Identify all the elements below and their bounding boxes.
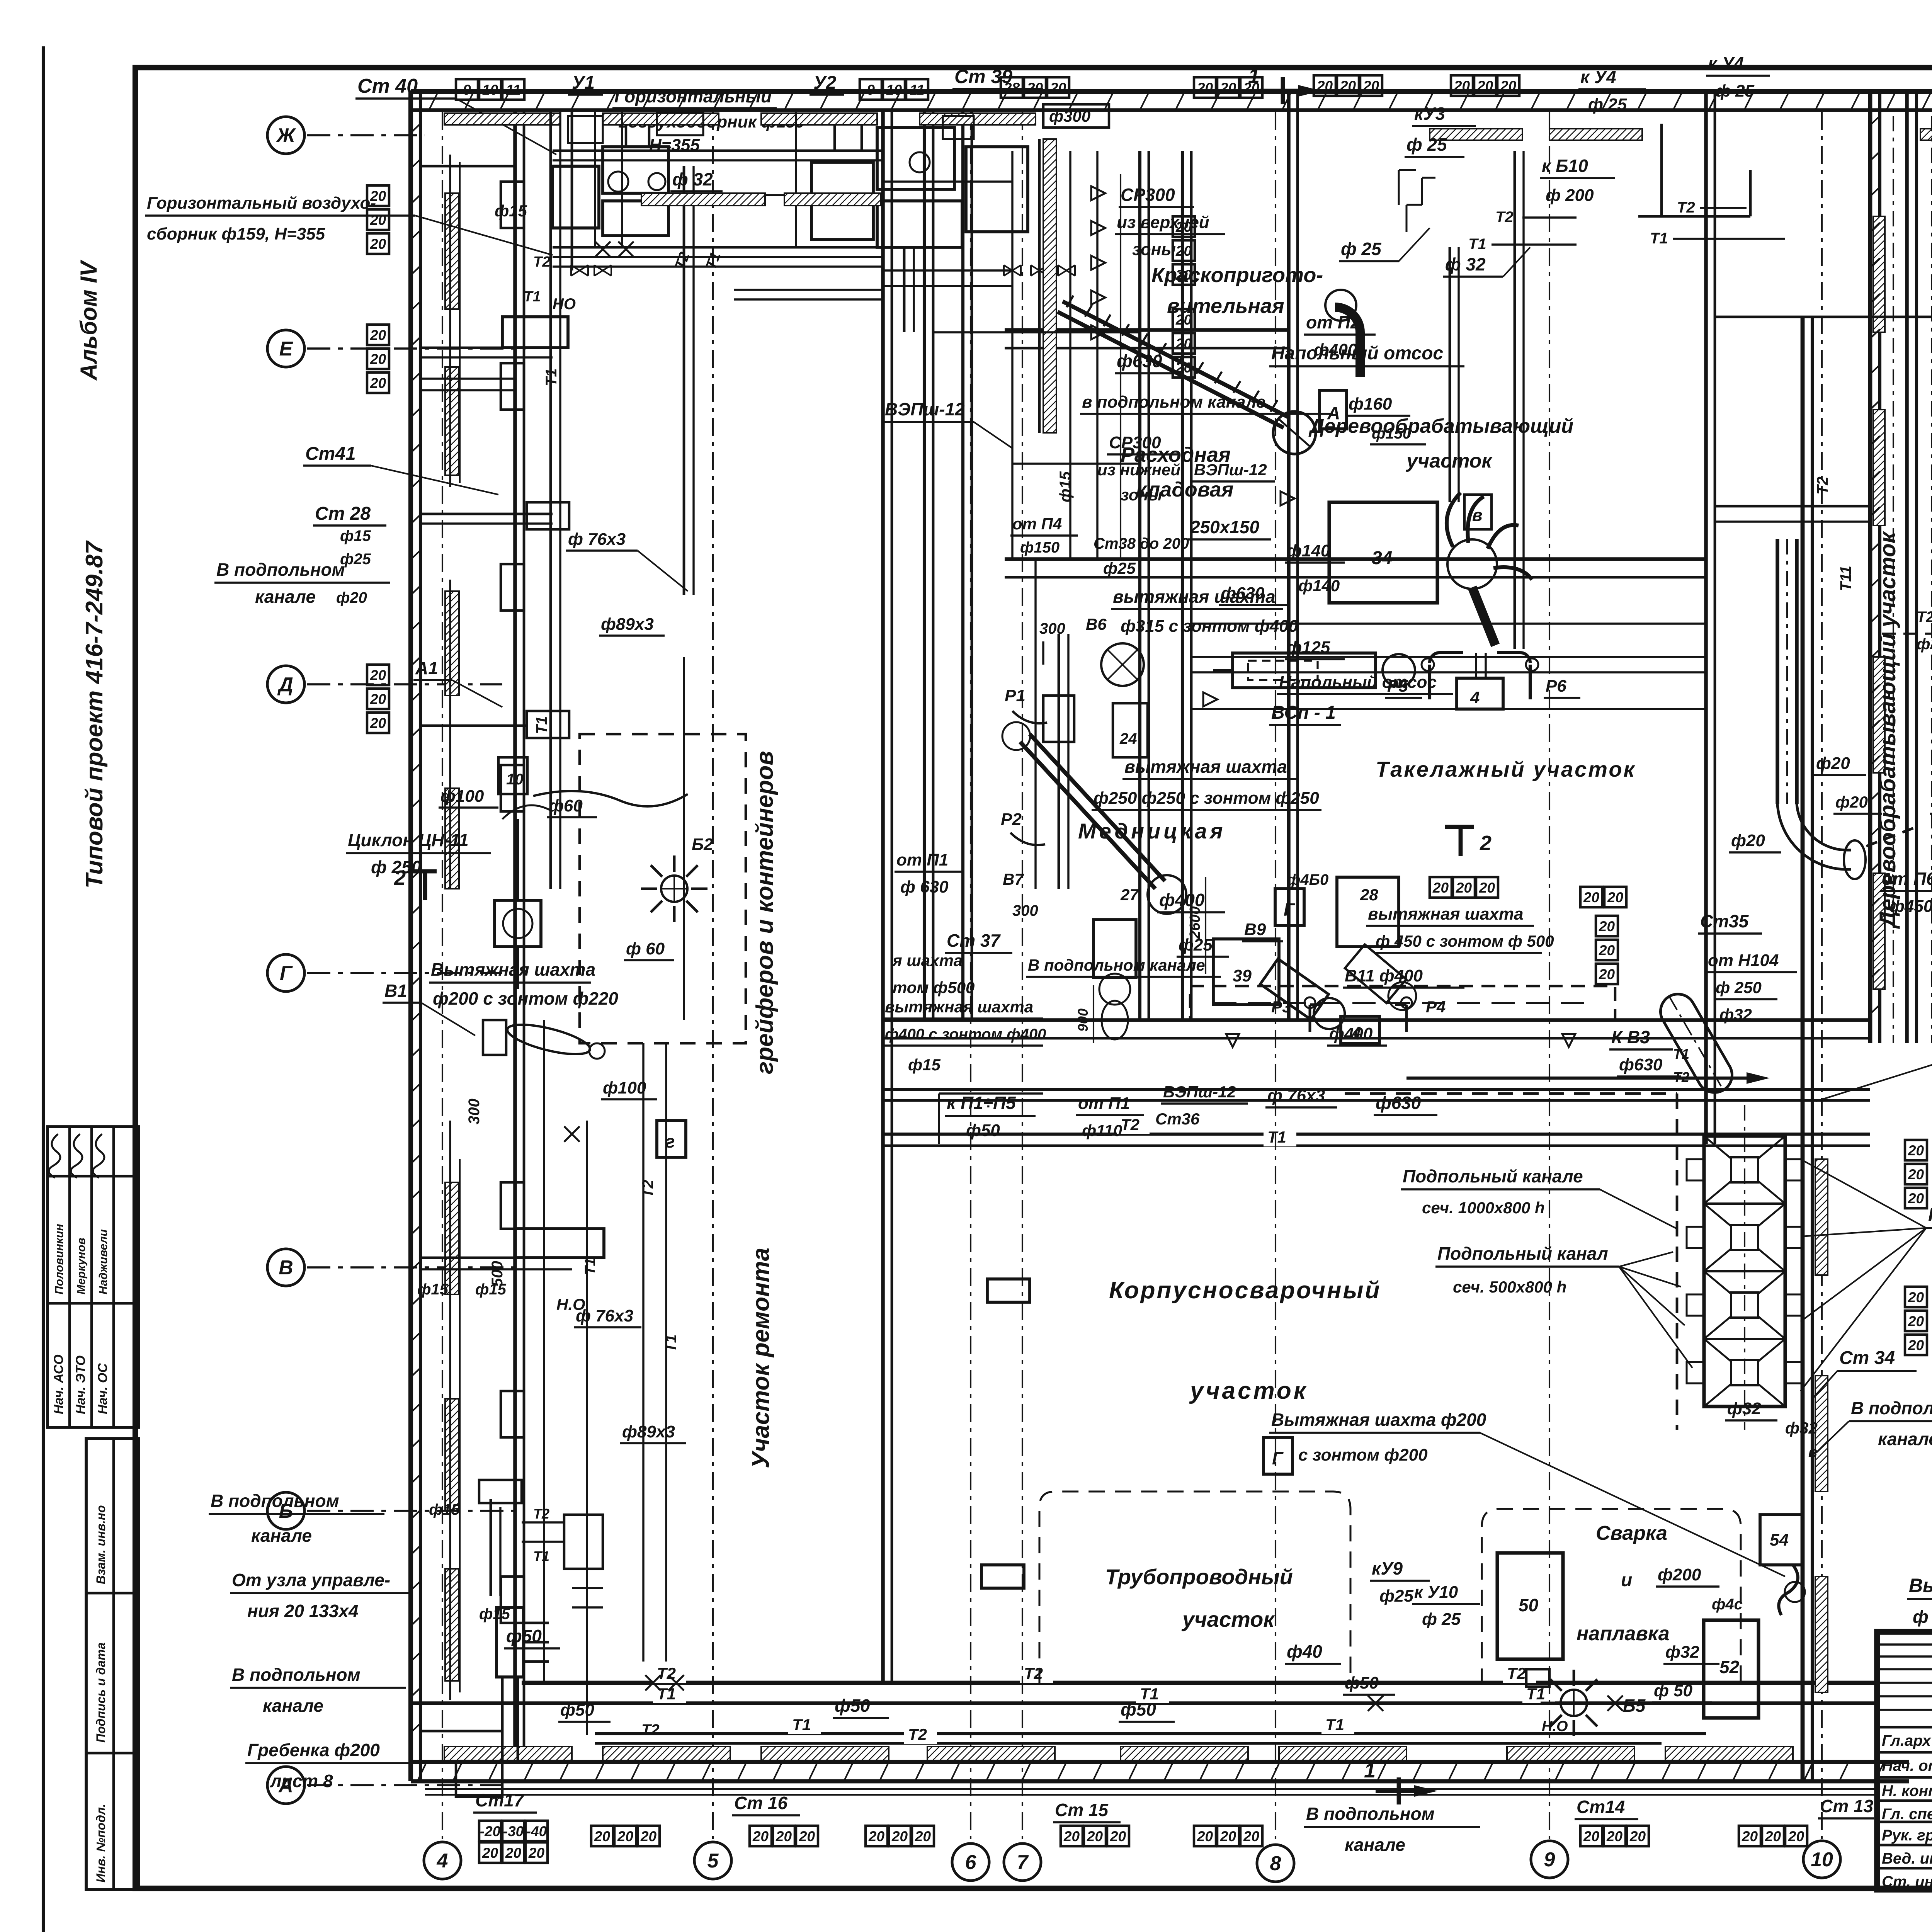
- svg-text:20: 20: [1456, 880, 1472, 896]
- svg-text:Ст36: Ст36: [1155, 1110, 1200, 1128]
- radiators axis10 wall lower: [1815, 1159, 1828, 1275]
- svg-text:я шахта: я шахта: [892, 951, 963, 969]
- svg-text:20: 20: [891, 1828, 908, 1844]
- svg-text:ф 32: ф 32: [1445, 254, 1486, 274]
- svg-text:НО: НО: [553, 296, 576, 313]
- svg-text:В: В: [279, 1257, 293, 1279]
- svg-text:7: 7: [1017, 1851, 1029, 1874]
- store top wall: [1005, 328, 1290, 332]
- svg-text:20: 20: [1316, 78, 1333, 94]
- svg-text:ф50: ф50: [506, 1626, 542, 1646]
- svg-text:ф630: ф630: [1376, 1093, 1421, 1113]
- box stacks left wall: [367, 185, 389, 206]
- svg-text:Вытяжная шахта ф200: Вытяжная шахта ф200: [1271, 1410, 1486, 1430]
- unit 52: [1704, 1620, 1759, 1718]
- VSP-1 unit: [1233, 653, 1376, 688]
- svg-text:Т1: Т1: [1468, 236, 1486, 253]
- svg-text:27: 27: [1120, 886, 1139, 904]
- takelazh line 1614: [1191, 622, 1706, 624]
- svg-text:20: 20: [1908, 1190, 1924, 1206]
- svg-text:Г: Г: [1272, 1448, 1284, 1468]
- svg-text:У2: У2: [813, 73, 837, 93]
- svg-text:20: 20: [1607, 889, 1624, 905]
- svg-text:ф40: ф40: [1287, 1641, 1322, 1662]
- svg-text:ф 76х3: ф 76х3: [576, 1306, 633, 1325]
- svg-text:В1: В1: [384, 981, 407, 1001]
- box row takelazh: [1430, 877, 1452, 898]
- paint room wall: [1138, 151, 1141, 1020]
- svg-text:Участок ремонта: Участок ремонта: [748, 1248, 774, 1468]
- unit 50: [1497, 1553, 1563, 1659]
- svg-text:к У4: к У4: [1580, 67, 1616, 87]
- box rows bottom: [479, 1821, 501, 1841]
- svg-text:Т1: Т1: [657, 1685, 676, 1703]
- svg-text:в: в: [1808, 1444, 1817, 1460]
- svg-text:Трубопроводный: Трубопроводный: [1105, 1565, 1293, 1589]
- svg-text:20: 20: [1599, 966, 1615, 982]
- svg-text:Ст41: Ст41: [305, 444, 356, 464]
- svg-text:Г: Г: [1284, 900, 1295, 920]
- svg-text:Взам. инв.но: Взам. инв.но: [94, 1505, 108, 1584]
- store room wall: [1287, 92, 1291, 1020]
- top wall: [411, 89, 1932, 94]
- angled shaft unit: [1260, 959, 1351, 1035]
- interior vertical bundle C: [961, 110, 964, 1020]
- svg-text:ф630: ф630: [1221, 584, 1265, 603]
- svg-text:20: 20: [370, 327, 386, 343]
- f200 elbow: [1779, 1565, 1798, 1615]
- svg-text:ф89х3: ф89х3: [601, 615, 654, 634]
- svg-text:52: 52: [1719, 1657, 1740, 1677]
- takelazh underline long: [1191, 708, 1706, 710]
- svg-text:ф 200: ф 200: [1546, 186, 1594, 205]
- svg-text:ф250 ф250 с зонтом ф250: ф250 ф250 с зонтом ф250: [1094, 789, 1319, 808]
- svg-text:У1: У1: [572, 73, 595, 93]
- svg-text:от П1: от П1: [896, 850, 948, 869]
- svg-text:Р4: Р4: [1426, 998, 1446, 1016]
- hook pipes: [1012, 711, 1047, 723]
- wood band hatch: [1870, 116, 1880, 125]
- svg-text:канале: канале: [251, 1526, 312, 1546]
- svg-text:В6: В6: [1086, 615, 1107, 633]
- svg-text:4: 4: [1352, 1024, 1361, 1041]
- svg-text:20: 20: [1742, 1828, 1758, 1844]
- corridor wall: [513, 110, 517, 1762]
- hor pipes at E axis: [420, 347, 553, 349]
- title block frame: [1877, 1632, 1932, 1889]
- svg-text:ф50: ф50: [1121, 1699, 1156, 1719]
- diagonal duct f630: [1058, 312, 1284, 428]
- svg-text:Подпись и дата: Подпись и дата: [94, 1643, 108, 1743]
- svg-text:Б5: Б5: [1623, 1696, 1646, 1716]
- svg-text:канале: канале: [255, 587, 316, 607]
- svg-text:ф50: ф50: [1345, 1673, 1379, 1692]
- axis verticals: [442, 112, 443, 1839]
- svg-text:ВЭПш-12: ВЭПш-12: [885, 399, 965, 419]
- boxed G mid left: [657, 1121, 686, 1157]
- svg-text:28: 28: [1360, 886, 1378, 904]
- svg-text:39: 39: [1233, 966, 1252, 985]
- svg-text:Ст. инж.: Ст. инж.: [1882, 1873, 1932, 1890]
- svg-text:Т2: Т2: [533, 254, 550, 270]
- svg-text:ф 25: ф 25: [1716, 82, 1755, 100]
- svg-text:ф50: ф50: [966, 1121, 1000, 1140]
- svg-text:Т1: Т1: [1325, 1716, 1344, 1734]
- svg-text:Краскопригото-: Краскопригото-: [1151, 264, 1323, 287]
- svg-text:Р5: Р5: [1387, 677, 1408, 696]
- svg-text:20: 20: [868, 1828, 885, 1844]
- wood band dashdot: [1893, 116, 1894, 1043]
- svg-text:и: и: [1621, 1570, 1632, 1590]
- svg-text:20: 20: [1197, 80, 1213, 96]
- svg-text:Ж: Ж: [276, 124, 296, 147]
- svg-text:грейферов и контейнеров: грейферов и контейнеров: [752, 751, 778, 1074]
- svg-text:ф630: ф630: [1117, 351, 1162, 371]
- wood room top walls: [1715, 505, 1870, 508]
- svg-text:От узла управле-: От узла управле-: [232, 1570, 390, 1590]
- unit 34: [1329, 502, 1437, 603]
- svg-text:к П1÷П5: к П1÷П5: [947, 1093, 1016, 1113]
- wall band wood shop left: [1868, 92, 1872, 1043]
- svg-text:4: 4: [437, 1850, 448, 1872]
- takelazh long horizontals: [1191, 656, 1706, 658]
- svg-text:участок: участок: [1189, 1378, 1308, 1404]
- svg-text:9: 9: [1544, 1849, 1555, 1871]
- axis circle 7: [1004, 1844, 1041, 1881]
- hor pipes at A axis: [456, 1762, 502, 1797]
- svg-text:Нач. ЭТО: Нач. ЭТО: [73, 1355, 88, 1414]
- T1 bottom long: [411, 1701, 1878, 1705]
- svg-text:ф125: ф125: [1287, 638, 1330, 657]
- svg-text:Т2: Т2: [639, 1180, 656, 1198]
- svg-text:20: 20: [505, 1845, 522, 1861]
- svg-text:лист 8: лист 8: [270, 1771, 333, 1791]
- bottom rails extend: [1812, 1788, 1878, 1790]
- svg-text:Гл.арх пр.: Гл.арх пр.: [1882, 1732, 1932, 1749]
- SR300 triangles: [1091, 186, 1105, 200]
- bottom wall hatch: [417, 1762, 427, 1781]
- axis circle 10: [1803, 1841, 1840, 1878]
- svg-text:34: 34: [1372, 548, 1392, 568]
- svg-text:ф110: ф110: [1082, 1121, 1122, 1139]
- svg-text:в подпольном канале: в подпольном канале: [1082, 393, 1265, 412]
- svg-text:54: 54: [1770, 1531, 1789, 1549]
- svg-text:2: 2: [1480, 832, 1492, 855]
- svg-text:Т1: Т1: [533, 1548, 549, 1564]
- svg-text:Типовой проект 416-7-249.87: Типовой проект 416-7-249.87: [81, 540, 108, 888]
- svg-text:Ст 40: Ст 40: [357, 75, 418, 97]
- svg-text:Ст14: Ст14: [1577, 1797, 1625, 1817]
- svg-text:В подпольном: В подпольном: [216, 560, 345, 580]
- svg-text:5: 5: [707, 1850, 719, 1872]
- svg-text:10: 10: [1811, 1849, 1833, 1871]
- svg-text:20: 20: [1110, 1828, 1126, 1844]
- svg-text:ф315 с зонтом ф400: ф315 с зонтом ф400: [1121, 617, 1298, 636]
- right wall axis10: [1801, 317, 1805, 1781]
- svg-text:Р2: Р2: [1001, 810, 1022, 829]
- elbow duct P2: [1335, 307, 1360, 377]
- svg-text:20: 20: [1599, 918, 1615, 934]
- dashed boundary truboprovod: [1039, 1492, 1350, 1685]
- svg-text:Т2: Т2: [1507, 1664, 1526, 1682]
- svg-text:Т1: Т1: [792, 1716, 811, 1734]
- corridor duct lines upper: [549, 112, 552, 889]
- svg-text:20: 20: [617, 1828, 634, 1844]
- svg-text:ф630: ф630: [1619, 1055, 1663, 1074]
- svg-text:ф15: ф15: [495, 202, 527, 220]
- svg-text:10: 10: [886, 82, 902, 98]
- upper band extra lines: [553, 150, 883, 152]
- svg-text:20: 20: [1197, 1828, 1213, 1844]
- svg-text:вытяжная шахта: вытяжная шахта: [885, 998, 1033, 1016]
- T1 mid: [883, 1145, 1870, 1147]
- hopper unit 4x: [1704, 1136, 1785, 1406]
- margin lower table: [86, 1439, 139, 1889]
- svg-text:-40: -40: [526, 1823, 547, 1839]
- svg-text:Циклон ЦН-11: Циклон ЦН-11: [348, 830, 469, 850]
- svg-text:канале: канале: [263, 1696, 323, 1716]
- P5 P6 pipes: [1430, 653, 1530, 663]
- duct column mid: [1058, 634, 1060, 889]
- dim 900: [1093, 985, 1094, 1043]
- snake duct: [533, 791, 688, 806]
- svg-text:300: 300: [1012, 902, 1038, 919]
- svg-text:Корпусносварочный: Корпусносварочный: [1109, 1277, 1381, 1304]
- svg-text:ф50: ф50: [835, 1696, 870, 1716]
- svg-text:Напольный отсос: Напольный отсос: [1279, 673, 1437, 692]
- hook small top: [1406, 205, 1422, 232]
- hall wall E: [883, 1018, 1870, 1022]
- svg-text:В9: В9: [1244, 920, 1266, 939]
- svg-text:Нач. ОС: Нач. ОС: [95, 1363, 110, 1414]
- cluster U2: [811, 162, 873, 240]
- big duct vertical: [1776, 539, 1779, 804]
- left axis circles: [267, 117, 304, 154]
- svg-text:20: 20: [1583, 889, 1600, 905]
- diagonal duct to mednitskaya: [1020, 742, 1155, 889]
- svg-text:от Н104: от Н104: [1708, 951, 1779, 970]
- svg-text:Медницкая: Медницкая: [1078, 819, 1226, 843]
- svg-text:11: 11: [910, 82, 924, 98]
- svg-text:А1: А1: [415, 658, 438, 678]
- svg-text:20: 20: [1908, 1289, 1924, 1305]
- svg-text:20: 20: [640, 1828, 657, 1844]
- svg-text:Надживели: Надживели: [97, 1229, 110, 1294]
- axis circle 4: [424, 1842, 461, 1879]
- sun symbol B2: [661, 876, 687, 902]
- svg-text:ф25: ф25: [1379, 1587, 1413, 1605]
- NO valve marks: [645, 1675, 661, 1690]
- svg-text:Ст 28: Ст 28: [315, 503, 371, 524]
- svg-text:Т2: Т2: [1814, 476, 1831, 495]
- svg-text:В подпольном: В подпольном: [1851, 1398, 1932, 1418]
- svg-text:20: 20: [1432, 880, 1449, 896]
- svg-text:наплавка: наплавка: [1577, 1622, 1670, 1645]
- section mark 1 top: [1281, 77, 1285, 104]
- svg-text:В11 ф400: В11 ф400: [1345, 966, 1423, 985]
- svg-text:ф15: ф15: [908, 1056, 941, 1074]
- svg-text:канале: канале: [1878, 1429, 1932, 1449]
- svg-text:ф32: ф32: [1727, 1399, 1761, 1418]
- svg-text:Вытяжная шахта: Вытяжная шахта: [1909, 1575, 1932, 1596]
- svg-text:20: 20: [799, 1828, 815, 1844]
- svg-text:Такелажный участок: Такелажный участок: [1376, 757, 1636, 781]
- svg-text:В подпольном: В подпольном: [1306, 1804, 1435, 1824]
- svg-text:ф20: ф20: [336, 589, 367, 606]
- svg-text:ф 250: ф 250: [1716, 978, 1762, 997]
- svg-text:Т1: Т1: [543, 368, 560, 386]
- svg-text:2600: 2600: [1187, 906, 1203, 939]
- small rect left1: [987, 1279, 1030, 1302]
- axis circle 9: [1531, 1841, 1568, 1878]
- svg-text:300: 300: [1039, 620, 1065, 637]
- svg-text:Ст38 до 200: Ст38 до 200: [1094, 535, 1189, 552]
- margin approval table: [48, 1127, 139, 1427]
- svg-text:Нач. АСО: Нач. АСО: [51, 1354, 66, 1414]
- svg-text:20: 20: [1454, 78, 1470, 94]
- svg-text:ф20: ф20: [1731, 831, 1765, 850]
- svg-text:Подпольный канал: Подпольный канал: [1437, 1243, 1608, 1264]
- svg-text:Р1: Р1: [1005, 686, 1026, 705]
- svg-text:20: 20: [594, 1828, 611, 1844]
- tilted shaft right: [1654, 988, 1738, 1099]
- svg-text:зоны: зоны: [1132, 240, 1176, 259]
- vertical pipe pair: [1449, 247, 1451, 502]
- section mark 2 mid: [1445, 825, 1474, 829]
- svg-text:Рук. гр.: Рук. гр.: [1882, 1827, 1932, 1844]
- cluster pipes down: [903, 247, 906, 332]
- svg-text:Р6: Р6: [1546, 677, 1566, 696]
- E axis pipes: [420, 378, 515, 379]
- svg-text:ф25: ф25: [1103, 559, 1136, 577]
- dashed canal boundary: [1676, 1094, 1679, 1430]
- dashed equipment zone: [580, 734, 746, 1043]
- svg-text:Б2: Б2: [692, 835, 713, 854]
- paint duct vertical: [1043, 139, 1056, 433]
- svg-text:Ст 39: Ст 39: [954, 66, 1012, 87]
- corridor duct lines lower: [543, 1020, 545, 1685]
- svg-text:20: 20: [1363, 78, 1379, 94]
- svg-text:Е: Е: [279, 338, 293, 360]
- svg-text:СР300: СР300: [1121, 185, 1175, 205]
- dashed duct band: [1190, 986, 1615, 1020]
- svg-text:Горизонтальный воздухо-: Горизонтальный воздухо-: [147, 194, 376, 213]
- svg-text:В7: В7: [1003, 870, 1024, 888]
- T2 mid: [883, 1133, 1870, 1136]
- svg-text:10: 10: [482, 82, 498, 98]
- wall band wood shop right: [1905, 92, 1909, 1043]
- svg-text:20: 20: [1479, 880, 1495, 896]
- axis circle 8: [1257, 1845, 1294, 1882]
- svg-text:кУ3: кУ3: [1414, 104, 1445, 124]
- svg-text:20: 20: [1087, 1828, 1103, 1844]
- svg-text:Ст17: Ст17: [475, 1790, 525, 1810]
- svg-text:ф60: ф60: [549, 796, 583, 815]
- svg-text:20: 20: [1599, 942, 1615, 958]
- svg-text:ВСп - 1: ВСп - 1: [1271, 702, 1336, 723]
- svg-text:Н. контр.: Н. контр.: [1882, 1782, 1932, 1799]
- svg-text:канале: канале: [1345, 1835, 1405, 1855]
- hor pipes lower B axis: [420, 1257, 572, 1259]
- svg-text:20: 20: [370, 212, 386, 228]
- P3 P4 pipes: [1310, 1005, 1406, 1032]
- box stacks interior: [1173, 216, 1195, 237]
- svg-text:20: 20: [370, 236, 386, 252]
- top wall hatch: [429, 92, 438, 110]
- svg-text:Т1: Т1: [524, 289, 541, 305]
- svg-text:Ст 13: Ст 13: [1820, 1796, 1873, 1816]
- svg-text:Инв. №подл.: Инв. №подл.: [94, 1804, 108, 1883]
- svg-text:ф25: ф25: [1179, 935, 1213, 954]
- svg-text:300: 300: [466, 1099, 483, 1124]
- svg-text:50: 50: [1519, 1595, 1539, 1615]
- svg-text:Т1: Т1: [663, 1334, 680, 1352]
- svg-text:-20: -20: [480, 1823, 501, 1839]
- box rows top: [456, 79, 478, 100]
- svg-text:20: 20: [1583, 1828, 1600, 1844]
- svg-text:ВЭПш-12: ВЭПш-12: [1163, 1083, 1236, 1101]
- section mark 2 top: [408, 869, 437, 874]
- svg-text:Ст 37: Ст 37: [947, 930, 1001, 951]
- svg-text:Ст 16: Ст 16: [734, 1793, 787, 1813]
- svg-text:Т2: Т2: [533, 1506, 549, 1522]
- svg-text:Р3: Р3: [1271, 998, 1291, 1016]
- svg-text:кладовая: кладовая: [1136, 478, 1233, 501]
- svg-text:8: 8: [1270, 1852, 1281, 1875]
- svg-text:20: 20: [1340, 78, 1356, 94]
- svg-text:20: 20: [1908, 1313, 1924, 1329]
- svg-text:Гл. спец.: Гл. спец.: [1882, 1806, 1932, 1823]
- svg-text:Гребенка ф200: Гребенка ф200: [247, 1740, 380, 1760]
- svg-text:900: 900: [1075, 1009, 1091, 1032]
- boxed A: [1320, 390, 1347, 429]
- svg-text:ф 25: ф 25: [1341, 239, 1382, 259]
- svg-text:2: 2: [394, 866, 406, 889]
- outer border left: [42, 46, 45, 1932]
- hopper axis: [1744, 1105, 1745, 1430]
- svg-text:20: 20: [776, 1828, 792, 1844]
- dashed boundary svarka: [1482, 1509, 1741, 1685]
- svg-text:ф50: ф50: [560, 1701, 594, 1719]
- unit 27: [1094, 920, 1136, 978]
- fan circle mid: [1101, 643, 1144, 686]
- svg-text:Нижний 4х секционный: Нижний 4х секционный: [1928, 1205, 1932, 1225]
- riser lines left: [449, 155, 451, 487]
- st35 duct: [1406, 1077, 1747, 1080]
- top right pipes: [1660, 124, 1663, 216]
- svg-text:4: 4: [1470, 688, 1480, 707]
- svg-text:ф15: ф15: [340, 527, 371, 544]
- svg-text:20: 20: [370, 715, 386, 731]
- svg-text:20: 20: [1050, 80, 1066, 96]
- svg-text:Ст35: Ст35: [1700, 911, 1749, 931]
- svg-text:9: 9: [463, 82, 471, 98]
- box stacks near hoppers: [1905, 1140, 1927, 1160]
- svg-text:-30: -30: [503, 1823, 524, 1839]
- svg-text:20: 20: [370, 375, 386, 391]
- radiators top wall: [1430, 129, 1522, 140]
- svg-text:В подпольном: В подпольном: [211, 1491, 339, 1511]
- boxed v: [1464, 495, 1492, 529]
- cyclone unit: [495, 900, 541, 947]
- small window boxes on corridor wall: [501, 182, 524, 228]
- svg-text:сеч. 1000х800 h: сеч. 1000х800 h: [1422, 1199, 1545, 1217]
- svg-text:9: 9: [867, 82, 875, 98]
- svg-text:ф140: ф140: [1287, 541, 1330, 560]
- svg-text:ф 450 с зонтом ф 500: ф 450 с зонтом ф 500: [1376, 932, 1554, 950]
- T1 bottom secondary: [595, 1732, 1706, 1735]
- svg-text:Т2: Т2: [1495, 209, 1514, 226]
